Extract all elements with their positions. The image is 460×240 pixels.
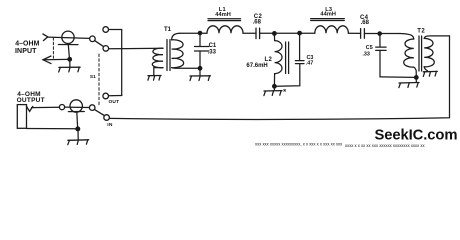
bypass wire vertical xyxy=(121,30,123,96)
transformer T2 primary winding xyxy=(404,39,414,67)
svg-text:INPUT: INPUT xyxy=(15,48,37,55)
svg-text:.33: .33 xyxy=(362,51,370,57)
T2 primary bottom stem xyxy=(414,67,417,77)
asterisk mark near L2 ground xyxy=(284,90,286,92)
svg-text:.47: .47 xyxy=(306,61,314,67)
ground G1 xyxy=(59,59,80,72)
wire C2 to node xyxy=(260,32,300,34)
switch S1 lower OUT contact xyxy=(103,93,109,99)
inductor L2 winding xyxy=(275,41,282,74)
switch S1 upper IN contact xyxy=(103,46,109,52)
return wire right edge xyxy=(110,36,450,120)
label 4-OHM INPUT xyxy=(15,41,40,56)
L2 core lines xyxy=(286,42,289,74)
capacitor C3 plates xyxy=(295,61,304,64)
C3 stem top xyxy=(299,33,301,60)
label 4-OHM OUTPUT xyxy=(17,91,45,104)
C5 stem xyxy=(379,34,381,47)
ground G6 xyxy=(399,77,419,87)
ground G2 xyxy=(68,129,89,145)
transformer T1 secondary winding xyxy=(172,40,184,68)
junction dot input ground node xyxy=(67,57,72,62)
wire L3 to C4 xyxy=(348,32,360,34)
capacitor C2 plates xyxy=(256,28,260,38)
T1 core xyxy=(167,40,170,71)
pilot circle on input line xyxy=(62,31,74,43)
junction dot node L2 top xyxy=(272,31,277,36)
svg-text:T1: T1 xyxy=(164,27,172,33)
T1 secondary top exit to rail xyxy=(172,33,180,40)
stub bar to ground node xyxy=(76,112,79,129)
stub bar to ground node xyxy=(68,45,69,60)
output jack sleeve wire xyxy=(27,128,76,130)
ground G4 xyxy=(190,76,211,81)
capacitor C1 plates xyxy=(195,47,209,52)
svg-text:67.6mH: 67.6mH xyxy=(246,63,267,69)
switch S1 upper pole xyxy=(90,36,96,42)
faint caption fragments bottom xyxy=(255,141,425,148)
output jack J2 body xyxy=(17,105,26,129)
svg-text:4–OHM: 4–OHM xyxy=(15,41,39,48)
break contact circle xyxy=(59,105,64,110)
pilot circle on output line xyxy=(70,100,82,112)
svg-text:xxxx x x xx xx xxx xxxxxx xxxx: xxxx x x xx xx xxx xxxxxx xxxxxxxx xxxx … xyxy=(345,143,425,147)
label L1 xyxy=(215,7,231,18)
bar under input circle xyxy=(58,44,78,46)
junction dot T2/C5 ground node xyxy=(414,75,419,80)
ground G3 T1 primary xyxy=(148,76,161,81)
label L3 xyxy=(320,7,336,18)
T1 secondary bottom wire xyxy=(172,67,198,70)
C3 bottom return wire xyxy=(276,64,300,87)
label L2 67.6mH xyxy=(246,57,272,69)
T1 primary bottom wire xyxy=(154,68,163,75)
T2 secondary bottom stem xyxy=(424,67,427,71)
wire sleeve to ground node xyxy=(43,58,68,60)
inductor L1 core lines xyxy=(208,19,241,21)
transformer T2 secondary winding xyxy=(424,38,434,66)
svg-text:C5: C5 xyxy=(366,45,373,51)
capacitor C5 plates xyxy=(376,47,386,50)
wire input tip to switch pole xyxy=(48,37,90,38)
wire switch to T1 primary xyxy=(109,47,163,50)
wire to pilot circle xyxy=(65,106,90,108)
main rail top xyxy=(180,32,207,34)
switch gang dashed line xyxy=(98,54,100,105)
svg-text:OUT: OUT xyxy=(109,99,120,105)
svg-text:.68: .68 xyxy=(253,20,262,26)
svg-text:IN: IN xyxy=(107,122,113,128)
ground G7 xyxy=(423,71,437,76)
wire upper OUT contact to bypass xyxy=(109,29,122,31)
svg-text:xxx xxx xxxxx xxxxxxxxx, x x x: xxx xxx xxxxx xxxxxxxxx, x x xxx x x xxx… xyxy=(255,141,343,146)
junction dot output ground node xyxy=(75,126,80,131)
label C1 xyxy=(208,43,217,55)
wire L1 to C2 xyxy=(243,32,256,34)
junction dot C1/T1sec ground node xyxy=(198,66,203,71)
input jack dashed plug line xyxy=(52,38,54,59)
junction dot rail/C1 xyxy=(198,31,203,36)
C1 stem bottom xyxy=(199,51,201,75)
switch S1 upper arm xyxy=(95,41,104,47)
T2 secondary top exit xyxy=(424,36,449,39)
input jack J1 sleeve contact xyxy=(43,56,51,64)
svg-text:44mH: 44mH xyxy=(320,12,336,18)
wire tip to break contact xyxy=(32,106,60,108)
wire lower OUT contact to bypass xyxy=(109,95,122,97)
capacitor C4 plates xyxy=(361,29,365,39)
switch S1 lower pole xyxy=(89,105,95,111)
switch S1 lower arm xyxy=(94,109,104,115)
input jack J1 tip contact xyxy=(43,34,48,41)
inductor L3 winding xyxy=(315,26,349,33)
wire C4 to node xyxy=(364,33,400,35)
T2 core xyxy=(419,36,422,71)
svg-text:44mH: 44mH xyxy=(215,12,231,18)
junction dot node C3 top xyxy=(297,31,302,36)
L2 stem from rail xyxy=(273,33,275,40)
switch S1 lower IN contact xyxy=(104,115,110,121)
inductor L3 core lines xyxy=(311,19,345,21)
inductor L1 winding xyxy=(207,26,243,33)
wire node to L3 xyxy=(300,32,315,34)
svg-text:.68: .68 xyxy=(361,20,370,26)
svg-text:SeekIC.com: SeekIC.com xyxy=(375,127,458,143)
junction dot L2/C3 ground node xyxy=(272,84,277,89)
L2 bottom stem xyxy=(273,74,275,87)
svg-text:S1: S1 xyxy=(90,74,96,80)
svg-text:.33: .33 xyxy=(208,49,217,55)
rail into T2 primary xyxy=(400,34,414,40)
junction dot node C5 top xyxy=(377,31,382,36)
svg-text:T2: T2 xyxy=(417,29,425,35)
label C4 xyxy=(360,15,370,26)
output jack tip contact xyxy=(27,106,33,111)
label C5 xyxy=(362,45,372,57)
bar under output circle xyxy=(68,111,84,113)
label C2 xyxy=(253,14,263,26)
svg-text:OUTPUT: OUTPUT xyxy=(17,97,45,104)
svg-text:C1: C1 xyxy=(209,43,217,49)
label C3 xyxy=(306,55,314,66)
ground G5 xyxy=(264,86,282,95)
switch S1 upper OUT contact xyxy=(103,27,109,33)
transformer T1 primary winding xyxy=(152,48,163,68)
C5 bottom return wire xyxy=(380,50,415,77)
capacitor C1 stem top xyxy=(199,33,201,46)
